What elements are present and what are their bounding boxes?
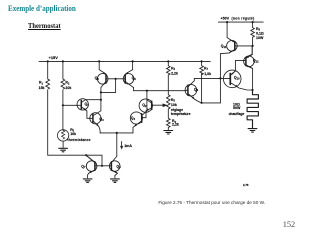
resistor R1 15k [46, 61, 50, 89]
wire Q2 emitter to Q4 base [143, 111, 146, 118]
junction Q7 collector / bias wire [85, 154, 87, 156]
svg-text:10k: 10k [65, 86, 71, 90]
resistor R2 10k [61, 61, 65, 89]
emitter arrow Q4 [134, 124, 137, 127]
wire tail current to Q8 [116, 133, 118, 156]
pot wiper arrow from Q2 base [153, 104, 164, 106]
svg-text:1,0k: 1,0k [204, 72, 211, 76]
junction Q5 emitter / +15V rail [98, 60, 100, 62]
junction Q7-Q8 bases [101, 165, 103, 167]
wire Q7 collector to bias [86, 155, 94, 162]
resistor R6 2.2k [167, 109, 171, 130]
svg-text:2,2k: 2,2k [171, 71, 178, 75]
junction R1 / +15V rail [47, 60, 49, 62]
transistor Q4 [130, 112, 142, 124]
svg-text:15k: 15k [39, 86, 45, 90]
transistor Q5 (PNP mirror) [97, 74, 108, 85]
wire Q5 emitter to rail [99, 61, 106, 74]
junction Q10 base node [219, 77, 221, 79]
transistor Q2 [139, 99, 152, 112]
svg-text:+15V: +15V [49, 55, 59, 60]
wire Q11 collector elbow [220, 50, 233, 54]
wire Q11 base to R8 bottom [236, 45, 253, 47]
svg-text:1mA: 1mA [124, 144, 132, 148]
svg-text:10k: 10k [70, 132, 76, 136]
potentiometer R5 10k reglage [167, 75, 171, 109]
svg-text:10k: 10k [171, 103, 177, 107]
transistor Q3 [90, 113, 101, 124]
subtitle Thermostat [28, 21, 61, 30]
wire common emitters [100, 127, 133, 133]
transistor Q12 (driver) [244, 56, 255, 67]
svg-text:Q6: Q6 [132, 76, 137, 81]
emitter arrow Q6 [125, 72, 128, 74]
+15V rail [39, 60, 210, 62]
wire Q10 emitter to heater node [232, 84, 253, 91]
svg-text:2,2k: 2,2k [172, 123, 179, 127]
wire Q2/Q4 collectors column [146, 91, 148, 111]
svg-text:thermistance: thermistance [67, 138, 90, 142]
wire right mirror collector column [133, 88, 135, 91]
wire Q6 emitter to rail [126, 61, 133, 74]
wire Q1 collector [85, 99, 101, 101]
wire node A to Q1 base [63, 104, 81, 106]
wire Q11 emitter from +50V rail [227, 22, 233, 41]
junction Q11 emitter / +50V rail [226, 21, 228, 23]
svg-text:Q8: Q8 [116, 164, 121, 169]
+50V rail [218, 21, 263, 23]
svg-text:Q11: Q11 [221, 44, 227, 49]
wire Q1 emitter to Q3 base [87, 111, 91, 119]
svg-text:R7: R7 [204, 66, 209, 71]
junction heater top node [251, 89, 253, 91]
emitter arrow Q10 [235, 85, 238, 87]
svg-text:température: température [171, 112, 191, 116]
transistor Q1 [77, 99, 88, 110]
emitter arrow Q3 [96, 124, 99, 127]
svg-text:Q5: Q5 [95, 76, 100, 81]
ground (Q7) [83, 179, 92, 183]
wire Q5-Q6 bases [101, 79, 125, 93]
junction Q6 emitter / +15V rail [132, 60, 134, 62]
page number [283, 220, 295, 229]
junction R7 / +15V rail [201, 60, 203, 62]
wire Q8 emitter to ground [115, 173, 118, 178]
svg-text:2.76: 2.76 [243, 183, 249, 187]
transistor Q8 [109, 161, 120, 172]
ground (R6) [164, 131, 173, 135]
wire Q10 collector [232, 71, 236, 75]
junction tail current node [116, 132, 118, 134]
1mA arrow [121, 142, 123, 147]
wire R1 bottom to mirror bias [48, 90, 102, 166]
junction Q4 collector / output node [146, 90, 148, 92]
node A (R2 / thermistor / Q1 base) [62, 104, 64, 106]
svg-text:Q9: Q9 [194, 87, 199, 92]
wire thermistor to ground [62, 141, 64, 147]
figure caption [158, 200, 265, 205]
wire Q9 collector to Q10 base [194, 77, 230, 79]
wire Q12 emitter down to heater node [247, 66, 253, 90]
svg-text:Q7: Q7 [81, 164, 86, 169]
emitter arrow Q8 [114, 171, 117, 173]
wire Q12 base to Q10 collector [235, 60, 245, 71]
wire Q12 collector up to R8 node [247, 46, 253, 57]
ground (heater) [248, 129, 257, 133]
svg-text:50W: 50W [233, 106, 241, 110]
svg-text:10W: 10W [256, 36, 264, 40]
wire R7 bottom to Q9 emitter node [201, 74, 203, 103]
wire Q7 emitter to ground [88, 173, 89, 178]
emitter arrow Q2 [146, 108, 149, 110]
emitter arrow Q9 [192, 96, 195, 99]
junction R2 / +15V rail [62, 60, 64, 62]
emitter arrow Q11 [232, 40, 235, 42]
transistor Q7 [86, 161, 97, 172]
resistor R7 1.0k [200, 61, 204, 74]
junction R8 / +50V rail [252, 21, 254, 23]
svg-text:(non régulé): (non régulé) [232, 16, 255, 20]
heater 10ohm 50W element [247, 90, 258, 128]
wire Q11 collector column [219, 54, 221, 103]
svg-text:0,1Ω: 0,1Ω [256, 31, 264, 35]
junction Q1 collector [100, 99, 102, 101]
svg-text:Q10: Q10 [234, 76, 240, 81]
junction Q9 emitter / R7 [201, 102, 203, 104]
svg-text:+50V: +50V [221, 16, 230, 20]
slide title [8, 4, 76, 13]
transistor Q9 [185, 84, 197, 96]
svg-text:R1: R1 [39, 81, 44, 86]
junction R8 bottom / Q11 base [252, 45, 254, 47]
resistor R8 0.1ohm 10W [251, 22, 255, 46]
svg-text:chauffage: chauffage [229, 112, 245, 116]
ground (Q8) [111, 179, 120, 183]
svg-text:Q2: Q2 [142, 103, 147, 108]
transistor Q11 (current limit PNP) [227, 41, 238, 52]
junction Q5-Q6 bases [115, 78, 117, 80]
wire mirror output to Q9 base [134, 90, 187, 92]
wire left mirror collector column [100, 87, 102, 110]
emitter arrow Q1 [84, 108, 87, 111]
svg-text:Q4: Q4 [131, 116, 136, 121]
transistor Q10 (power) [223, 70, 241, 88]
transistor Q6 (PNP mirror) [123, 74, 134, 85]
emitter arrow Q12 [246, 56, 249, 58]
emitter arrow Q5 [103, 72, 106, 74]
wire Q7-Q8 bases [95, 165, 111, 167]
resistor R4 2.2k [167, 61, 171, 75]
wire R2 bottom to thermistor node [62, 90, 64, 129]
junction R4 / +15V rail [167, 60, 169, 62]
thermistor R3 10k [57, 130, 68, 141]
ground (thermistor) [59, 148, 68, 152]
svg-text:R2: R2 [65, 81, 70, 86]
emitter arrow Q7 [89, 171, 92, 173]
junction Q5 collector / mirror bases [100, 91, 102, 93]
wire Q9 emitter node [202, 102, 221, 104]
